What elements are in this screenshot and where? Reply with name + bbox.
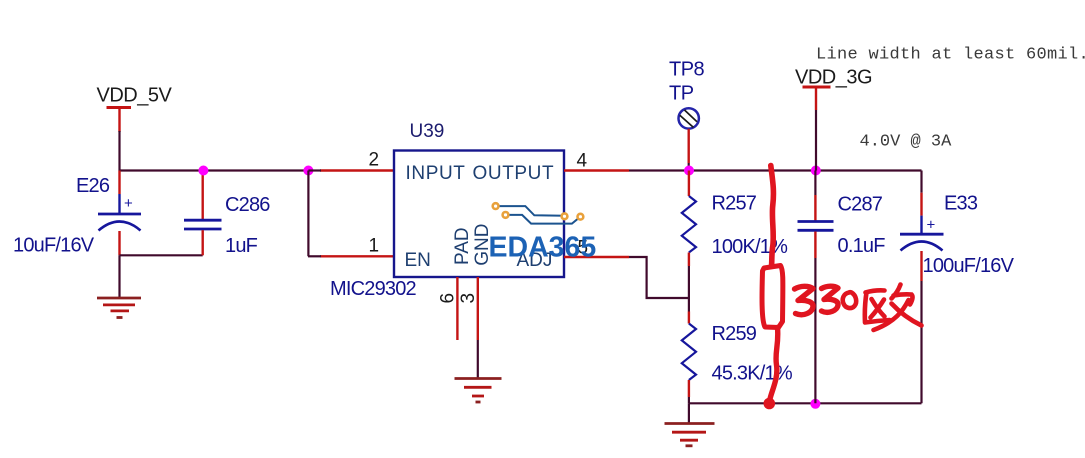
logo pad 3	[562, 213, 568, 219]
test point pin	[688, 129, 690, 163]
svg-text:E26: E26	[76, 175, 110, 197]
svg-text:MIC29302: MIC29302	[330, 278, 417, 300]
svg-text:1: 1	[369, 236, 380, 257]
power bar VDD_3G	[803, 86, 831, 89]
svg-text:R259: R259	[712, 323, 757, 345]
svg-text:45.3K/1%: 45.3K/1%	[712, 363, 793, 385]
wire ADJ net	[629, 257, 689, 298]
wire tp to net	[688, 163, 690, 171]
pin 4 wire	[564, 169, 629, 171]
wire VDD_5V main horizontal	[120, 169, 313, 171]
pin 2 wire	[320, 169, 394, 171]
svg-text:C286: C286	[225, 194, 270, 216]
svg-text:0.1uF: 0.1uF	[838, 235, 886, 257]
annotation stroke top	[771, 166, 774, 267]
svg-text:100K/1%: 100K/1%	[712, 236, 789, 258]
junction dot	[684, 166, 694, 176]
svg-text:C287: C287	[838, 194, 883, 216]
svg-text:2: 2	[369, 150, 380, 171]
svg-text:TP: TP	[669, 83, 694, 105]
annotation hanzi ou left box	[865, 290, 890, 322]
svg-text:PAD: PAD	[452, 227, 473, 265]
capacitor C287	[798, 171, 834, 259]
capacitor C286	[184, 171, 222, 256]
IC U39 body	[394, 151, 564, 278]
svg-text:R257: R257	[712, 193, 757, 215]
wire bottom horizontal	[689, 402, 922, 404]
svg-text:4.0V @ 3A: 4.0V @ 3A	[860, 133, 953, 152]
svg-text:TP8: TP8	[669, 59, 705, 81]
wire R257 to R259	[688, 266, 690, 312]
wire EN branch vertical	[307, 171, 309, 257]
svg-text:VDD_5V: VDD_5V	[97, 85, 173, 107]
svg-text:INPUT: INPUT	[406, 163, 466, 184]
svg-text:U39: U39	[410, 121, 445, 142]
resistor R257	[682, 171, 696, 267]
power bar VDD_5V	[107, 106, 132, 109]
wire bottom net	[688, 397, 690, 403]
annotation digit 0	[843, 292, 856, 308]
wire pin3 to ground	[477, 340, 479, 378]
test point TP8 pad	[679, 108, 699, 128]
svg-text:EN: EN	[405, 250, 431, 271]
wire to ground	[118, 255, 120, 297]
svg-text:10uF/16V: 10uF/16V	[13, 235, 95, 257]
junction dot	[303, 166, 313, 176]
pin 5 wire	[564, 256, 629, 258]
logo trace 1	[496, 206, 565, 216]
logo trace 2	[506, 215, 581, 224]
wire E33 top	[920, 171, 922, 193]
svg-text:6: 6	[438, 293, 459, 304]
pin 6 stub	[456, 277, 458, 340]
logo pad 2	[503, 212, 509, 218]
svg-text:4: 4	[577, 150, 588, 171]
junction dot	[810, 399, 820, 409]
annotation dot	[764, 398, 776, 410]
svg-text:1uF: 1uF	[225, 235, 258, 257]
logo pad 4	[578, 214, 584, 220]
resistor R259	[682, 312, 696, 398]
wire VDD_3G vertical	[815, 110, 817, 171]
capacitor E33	[900, 193, 944, 281]
wire VDD_5V vertical	[118, 131, 120, 171]
svg-text:OUTPUT: OUTPUT	[473, 163, 555, 184]
ground bottom	[665, 424, 715, 446]
svg-text:VDD_3G: VDD_3G	[795, 67, 872, 89]
junction dot	[811, 166, 821, 176]
annotation hanzi ou inner x	[871, 299, 885, 318]
capacitor E26	[98, 171, 141, 256]
svg-text:+: +	[927, 217, 936, 234]
wire output net	[629, 169, 922, 171]
pin 1 wire	[320, 255, 394, 257]
svg-text:100uF/16V: 100uF/16V	[923, 255, 1015, 277]
wire E33 bottom	[920, 281, 922, 403]
annotation stroke bottom	[770, 328, 778, 400]
ground pin3	[455, 379, 502, 403]
wire to ground right	[688, 403, 690, 422]
power pin VDD_3G	[815, 87, 817, 110]
svg-text:EDA365: EDA365	[489, 232, 597, 264]
wire cap bottoms	[120, 254, 203, 256]
wire C287 bottom	[814, 258, 816, 403]
logo pad 1	[493, 203, 499, 209]
annotation hanzi ou right	[874, 285, 922, 331]
annotation digit 3	[795, 286, 814, 314]
annotation digit 3	[822, 286, 839, 312]
pin 3 stub	[477, 277, 479, 340]
power pin VDD_5V	[118, 108, 120, 133]
svg-text:E33: E33	[944, 193, 978, 215]
svg-text:3: 3	[458, 293, 479, 304]
ground E26	[97, 298, 141, 318]
junction dot	[198, 166, 208, 176]
svg-text:Line width at least 60mil.: Line width at least 60mil.	[816, 46, 1085, 65]
svg-text:+: +	[124, 195, 133, 212]
annotation resistor box	[762, 266, 783, 328]
